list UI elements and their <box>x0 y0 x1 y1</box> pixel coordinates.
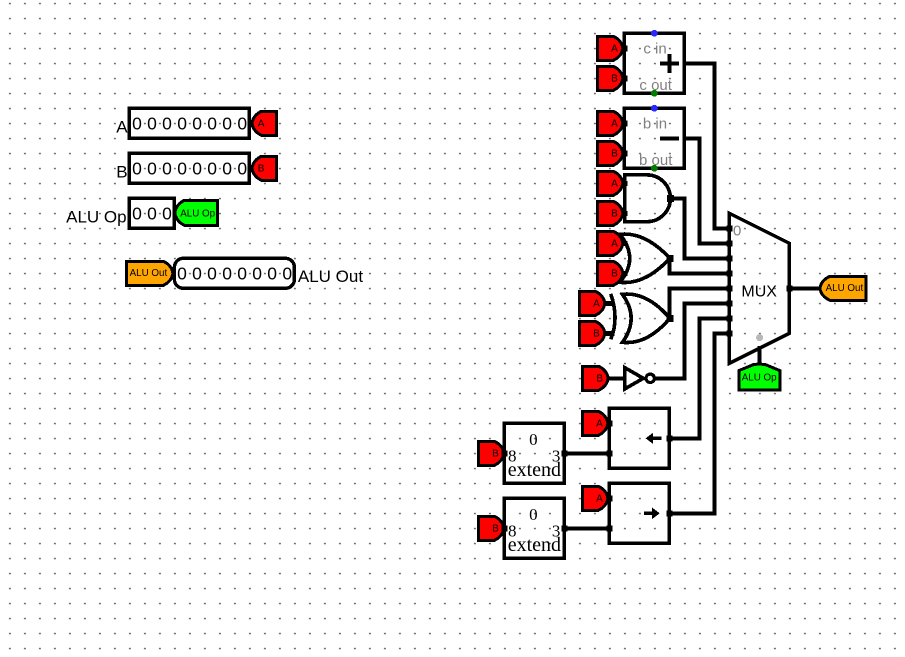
shifter U9 (shift right) <box>606 483 672 543</box>
svg-text:B: B <box>492 524 499 535</box>
tunnel B9 (red) <box>478 516 504 540</box>
tunnel A8 (red) <box>582 486 608 510</box>
svg-text:extend: extend <box>508 534 561 556</box>
svg-text:ALU Op: ALU Op <box>66 207 126 226</box>
svg-text:B: B <box>611 269 618 280</box>
tunnel B7 (red) <box>583 366 609 390</box>
adder c-out port (green dot) <box>651 90 658 97</box>
svg-text:A: A <box>258 119 265 130</box>
wire extender2 out to shifter2 dist <box>564 526 609 530</box>
svg-text:ALU Out: ALU Out <box>826 283 864 294</box>
svg-text:MUX: MUX <box>741 284 777 301</box>
tunnel ALU Op (green, north) <box>739 364 780 390</box>
tunnel ALU Op (green) <box>175 200 218 225</box>
MUX select port (grey dot) <box>756 334 763 341</box>
wire subtractor out to MUX in1 <box>684 138 729 243</box>
subtractor b-out port (green dot) <box>651 165 658 172</box>
wire adder out to MUX in0 <box>684 63 729 228</box>
svg-text:ALU Op: ALU Op <box>742 372 777 383</box>
tunnel ALU Out (orange) <box>126 261 172 285</box>
svg-text:A: A <box>116 117 128 136</box>
svg-text:A: A <box>611 119 618 130</box>
XOR gate U5 <box>603 294 674 343</box>
tunnel A3 (red) <box>597 111 623 135</box>
shifter U7 (shift left) <box>606 408 672 468</box>
wire OR out to MUX in3 <box>669 256 729 273</box>
svg-text:A: A <box>611 44 618 55</box>
svg-text:B: B <box>593 329 600 340</box>
svg-text:A: A <box>593 299 600 310</box>
subtractor U2 <box>621 108 684 169</box>
svg-text:0: 0 <box>733 223 741 240</box>
wire NOT out to MUX in5 <box>655 303 730 378</box>
wire shifter1 out to MUX in6 <box>669 318 729 438</box>
bit extender U10 <box>501 498 567 558</box>
svg-text:ALU Out: ALU Out <box>130 268 168 279</box>
svg-text:0: 0 <box>529 430 538 449</box>
tunnel A4 (red) <box>597 171 623 195</box>
multiplexer MUX <box>726 213 792 363</box>
OR gate U4 <box>620 234 674 283</box>
input pin ALU Op <box>129 198 177 228</box>
adder U1 <box>621 33 684 94</box>
tunnel A7 (red) <box>582 411 608 435</box>
tunnel A2 (red) <box>597 36 623 60</box>
tunnel A5 (red) <box>597 231 623 255</box>
svg-text:B: B <box>596 374 603 385</box>
svg-text:extend: extend <box>508 459 561 481</box>
svg-text:00000000: 00000000 <box>132 159 252 179</box>
wire extender1 out to shifter1 dist <box>564 451 609 455</box>
tunnel B2 (red) <box>597 66 623 90</box>
svg-text:00000000: 00000000 <box>177 264 297 284</box>
svg-text:B: B <box>611 149 618 160</box>
input pin A <box>129 108 252 138</box>
wire AND out to MUX in2 <box>669 198 729 258</box>
svg-text:b in: b in <box>643 116 667 133</box>
tunnel B3 (red) <box>597 141 623 165</box>
tunnel B6 (red) <box>579 321 605 345</box>
AND gate U3 <box>622 175 674 222</box>
tunnel B8 (red) <box>478 441 504 465</box>
svg-text:000: 000 <box>132 204 177 224</box>
svg-text:c in: c in <box>643 41 666 58</box>
svg-text:B: B <box>116 162 127 181</box>
bit extender U8 <box>501 423 567 483</box>
svg-text:B: B <box>258 164 265 175</box>
svg-text:0: 0 <box>529 505 538 524</box>
input pin B <box>129 153 252 183</box>
svg-text:ALU Op: ALU Op <box>180 208 215 219</box>
wire MUX select <box>757 346 761 364</box>
svg-text:A: A <box>611 239 618 250</box>
wire MUX out to ALU Out tunnel <box>789 286 820 290</box>
NOT gate U6 <box>608 368 654 389</box>
svg-text:ALU Out: ALU Out <box>298 267 363 286</box>
tunnel ALU Out (orange, right) <box>820 276 866 300</box>
subtractor b-in port (blue dot) <box>651 105 658 112</box>
svg-text:00000000: 00000000 <box>132 114 252 134</box>
wire shifter2 out to MUX in7 <box>669 333 729 513</box>
svg-text:B: B <box>611 209 618 220</box>
tunnel A6 (red) <box>579 291 605 315</box>
svg-text:A: A <box>611 179 618 190</box>
tunnel B1 (red) <box>252 156 277 180</box>
svg-text:A: A <box>596 419 603 430</box>
svg-text:B: B <box>611 74 618 85</box>
wire XOR out to MUX in4 <box>669 288 729 320</box>
svg-text:B: B <box>492 449 499 460</box>
tunnel A1 (red) <box>252 111 277 135</box>
adder c-in port (blue dot) <box>651 30 658 37</box>
tunnel B5 (red) <box>597 261 623 285</box>
output pin ALU Out <box>174 258 297 288</box>
tunnel B4 (red) <box>597 201 623 225</box>
svg-text:A: A <box>596 494 603 505</box>
